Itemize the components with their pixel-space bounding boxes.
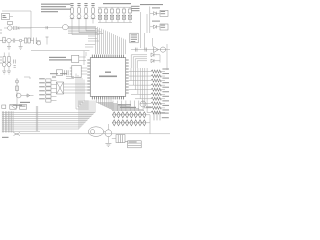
wire bbox=[112, 109, 144, 111]
resistor R25 bbox=[135, 97, 165, 100]
resistor R14 bbox=[116, 15, 119, 22]
resistor R12 bbox=[104, 15, 107, 22]
capacitor C20 bbox=[52, 76, 56, 78]
label net10 bbox=[162, 109, 169, 110]
wire bbox=[71, 19, 73, 24]
transistor Q6 bbox=[104, 130, 112, 137]
wire bbox=[149, 7, 151, 34]
wire bbox=[79, 24, 97, 33]
wire bbox=[84, 51, 86, 65]
capacitor C17 bbox=[145, 48, 147, 52]
wire bbox=[30, 40, 33, 42]
resistor R9 bbox=[85, 6, 88, 13]
connector J5 bbox=[112, 135, 125, 143]
wire bbox=[66, 77, 74, 79]
capacitor C16 bbox=[135, 48, 137, 52]
tick bbox=[125, 140, 128, 142]
resistor R1 bbox=[8, 22, 13, 25]
resistor R11 bbox=[98, 15, 101, 22]
wire bbox=[24, 77, 30, 79]
ground bbox=[19, 42, 23, 49]
connector J1 bbox=[2, 14, 10, 20]
diode matrix row 2 bbox=[113, 120, 147, 126]
transistor Q3 bbox=[16, 93, 21, 98]
resistor R21 bbox=[129, 79, 165, 82]
transistor Q5 bbox=[140, 101, 146, 107]
resistor R34 bbox=[39, 98, 56, 102]
capacitor C5 bbox=[14, 66, 16, 68]
wire bbox=[30, 11, 32, 41]
resistor R31 bbox=[39, 86, 56, 90]
capacitor C14 bbox=[46, 26, 48, 29]
capacitor C15 bbox=[56, 70, 62, 76]
ground bbox=[7, 43, 11, 49]
resistor R20 bbox=[129, 75, 165, 78]
resistor R29 bbox=[39, 78, 56, 82]
resistor R23 bbox=[129, 88, 165, 91]
capacitor C18 bbox=[154, 112, 157, 120]
label net7 bbox=[162, 96, 169, 97]
wire bbox=[46, 37, 49, 45]
resistor R15 bbox=[122, 15, 125, 22]
driver block U5 bbox=[57, 82, 64, 94]
transistor Q4 bbox=[160, 47, 165, 52]
ground bbox=[7, 67, 11, 75]
resistor R16 bbox=[128, 15, 131, 22]
capacitor C10 bbox=[116, 7, 119, 15]
bus wires from U1 bottom bbox=[96, 99, 143, 109]
label bbox=[152, 6, 160, 9]
resistor R7 bbox=[71, 6, 74, 13]
label NET1 bbox=[20, 102, 30, 103]
buffer U4 bbox=[154, 47, 159, 53]
wires to U1 left bbox=[64, 84, 88, 93]
capacitor C3 bbox=[34, 38, 37, 45]
heading text bbox=[103, 3, 131, 4]
resistor R22 bbox=[129, 84, 165, 87]
bus row wires bbox=[2, 101, 95, 130]
diode D1 bbox=[17, 27, 20, 30]
wire bbox=[112, 114, 144, 116]
op-amp U2 bbox=[4, 26, 12, 30]
wire bbox=[78, 19, 80, 24]
LED D8 bbox=[91, 13, 95, 19]
bus wires to U1 top bbox=[95, 26, 125, 54]
arrow mark bbox=[14, 133, 21, 136]
bus row wires lower bbox=[2, 130, 40, 132]
label net9 bbox=[162, 105, 169, 106]
resistor R18 bbox=[65, 70, 69, 75]
note text bbox=[140, 4, 163, 5]
label net1 bbox=[162, 69, 169, 70]
diode matrix row 1 bbox=[113, 112, 147, 118]
polarized capacitor C13 bbox=[62, 25, 68, 30]
LED D5 bbox=[70, 13, 74, 19]
diode D12 bbox=[151, 59, 160, 63]
label bbox=[152, 21, 160, 22]
note text bbox=[131, 6, 140, 11]
wire bbox=[92, 19, 94, 24]
wire bbox=[140, 12, 142, 48]
ground bbox=[2, 67, 6, 75]
resistor R27 bbox=[144, 106, 165, 109]
capacitor C4 bbox=[14, 60, 16, 64]
resistor R19 bbox=[129, 70, 165, 73]
wire bbox=[31, 50, 90, 52]
bus bend wires left bbox=[76, 74, 89, 110]
wire bbox=[16, 78, 18, 108]
node C bbox=[0, 30, 3, 41]
wire bbox=[98, 6, 132, 8]
resistor R2 bbox=[3, 37, 5, 43]
wire bbox=[159, 55, 161, 63]
diode D10 bbox=[150, 25, 160, 29]
relay K1 bbox=[10, 105, 16, 110]
wire bbox=[145, 14, 153, 50]
capacitor C7 bbox=[98, 7, 101, 15]
resistor R33 bbox=[39, 94, 56, 98]
ground bbox=[105, 143, 111, 146]
wire bbox=[68, 27, 95, 29]
diode D9 bbox=[150, 12, 160, 16]
label net3 bbox=[162, 78, 169, 79]
resistor R28 bbox=[147, 111, 165, 114]
LED D6 bbox=[77, 13, 81, 19]
resistor R13 bbox=[110, 15, 113, 22]
resistor R26 bbox=[140, 102, 165, 105]
label RESET bbox=[13, 105, 23, 106]
LED D2 bbox=[2, 62, 6, 67]
wire bbox=[112, 122, 144, 124]
wire bbox=[21, 95, 34, 97]
wire bbox=[20, 133, 170, 135]
capacitor C6 bbox=[2, 105, 6, 108]
LED D7 bbox=[84, 13, 88, 19]
oscillator X1 bbox=[72, 55, 86, 62]
capacitor C8 bbox=[104, 7, 107, 15]
table block bbox=[128, 141, 142, 148]
wire bbox=[19, 27, 31, 29]
label bbox=[146, 107, 151, 108]
label net2 bbox=[162, 73, 169, 74]
wire bend bbox=[137, 61, 147, 68]
pin label P1 bbox=[70, 3, 73, 6]
wire bend bbox=[135, 59, 147, 68]
wire bbox=[36, 106, 38, 132]
label bbox=[2, 137, 9, 138]
diode D4 bbox=[27, 94, 30, 97]
wire bbox=[107, 124, 109, 130]
wire bend bbox=[133, 57, 147, 68]
label net4 bbox=[162, 82, 169, 83]
resistor R10 bbox=[92, 6, 95, 13]
label net8 bbox=[162, 100, 169, 101]
label net6 bbox=[162, 91, 169, 92]
pin label P2 bbox=[77, 3, 80, 6]
wire bbox=[166, 44, 168, 70]
pin label P3 bbox=[84, 3, 87, 6]
resistor R32 bbox=[39, 90, 56, 94]
wire bbox=[131, 49, 170, 51]
matrix column wires bbox=[113, 101, 143, 112]
capacitor C1 bbox=[12, 26, 15, 30]
resistor R8 bbox=[78, 6, 81, 13]
ic U3 bbox=[70, 65, 87, 77]
wire bbox=[98, 22, 132, 24]
bus bend wires bbox=[68, 27, 103, 34]
wire bbox=[107, 137, 109, 144]
resistor R30 bbox=[39, 82, 56, 86]
capacitor C11 bbox=[122, 7, 125, 15]
connector J3 bbox=[160, 10, 168, 16]
wire bbox=[72, 24, 99, 35]
label net5 bbox=[162, 87, 169, 88]
mcu U1 bbox=[87, 55, 128, 100]
wire bbox=[2, 10, 31, 12]
crystal Y1 bbox=[15, 80, 18, 83]
capacitor C9 bbox=[110, 7, 113, 15]
connector J2 bbox=[19, 105, 26, 110]
connector J4 bbox=[160, 24, 168, 30]
node A bbox=[15, 39, 22, 42]
wire bbox=[10, 16, 14, 18]
wire bbox=[88, 36, 99, 41]
bus column wires bbox=[2, 111, 13, 132]
wire bend bbox=[131, 55, 147, 68]
wire bbox=[144, 115, 150, 134]
label bbox=[162, 113, 169, 119]
capacitor C2 bbox=[11, 38, 15, 42]
note text bbox=[49, 57, 72, 61]
note text block bbox=[41, 4, 71, 13]
node B bbox=[0, 57, 2, 63]
wire bbox=[85, 19, 87, 24]
buzzer LS1 bbox=[88, 127, 103, 137]
label bbox=[50, 73, 67, 74]
resistor R4 bbox=[3, 53, 5, 63]
label bbox=[118, 104, 136, 108]
resistor R3 bbox=[22, 38, 30, 43]
note block bbox=[130, 33, 138, 43]
wire bbox=[86, 24, 95, 31]
resistor R24 bbox=[131, 93, 165, 96]
resistor R6 bbox=[16, 86, 19, 91]
wire bbox=[85, 45, 95, 48]
diode D11 bbox=[151, 53, 160, 57]
capacitor C19 bbox=[159, 112, 161, 120]
transistor Q1 bbox=[4, 38, 11, 42]
pin label P4 bbox=[91, 3, 94, 6]
wire bbox=[20, 27, 63, 29]
capacitor C12 bbox=[128, 7, 131, 15]
transistor Q2 bbox=[36, 41, 41, 46]
resistor R5 bbox=[8, 53, 10, 63]
bus feed wires bbox=[131, 68, 147, 112]
LED D3 bbox=[7, 62, 11, 67]
